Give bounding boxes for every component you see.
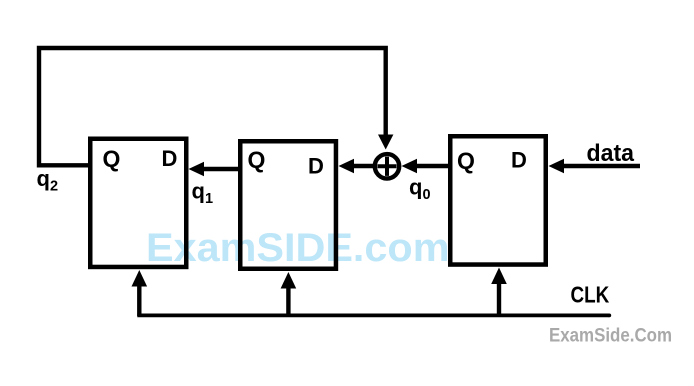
svg-text:D: D <box>511 148 527 173</box>
D flip-flop FF0 (right) <box>450 136 546 264</box>
clock wire to FF1 <box>281 272 297 316</box>
svg-text:D: D <box>162 146 178 171</box>
svg-text:Q: Q <box>457 148 475 174</box>
svg-text:ExamSIDE.com: ExamSIDE.com <box>146 226 450 270</box>
clock wire to FF2 <box>132 270 148 316</box>
D flip-flop FF2 (left) <box>90 139 186 267</box>
svg-text:q1: q1 <box>192 179 214 208</box>
svg-text:CLK: CLK <box>571 281 610 307</box>
XOR gate X1 <box>375 154 399 178</box>
svg-text:Q: Q <box>248 147 266 173</box>
wire CLK distribution line <box>137 313 609 317</box>
svg-text:D: D <box>308 154 324 179</box>
svg-text:data: data <box>587 140 635 167</box>
wire data input to FF0 D <box>549 159 641 174</box>
D flip-flop FF1 (middle) <box>240 141 336 269</box>
clock wire to FF0 <box>491 268 507 317</box>
svg-text:ExamSide.Com: ExamSide.Com <box>549 326 672 347</box>
wire q1 from FF1 Q to FF2 D input <box>189 162 241 177</box>
svg-text:Q: Q <box>103 146 121 172</box>
svg-text:q0: q0 <box>409 175 431 204</box>
wire feedback from q2 output up and across to XOR top input <box>39 48 393 165</box>
svg-text:q2: q2 <box>37 166 59 195</box>
wire XOR output to FF1 D input <box>339 159 374 174</box>
wire q0 from FF0 Q to XOR right input <box>402 159 451 174</box>
